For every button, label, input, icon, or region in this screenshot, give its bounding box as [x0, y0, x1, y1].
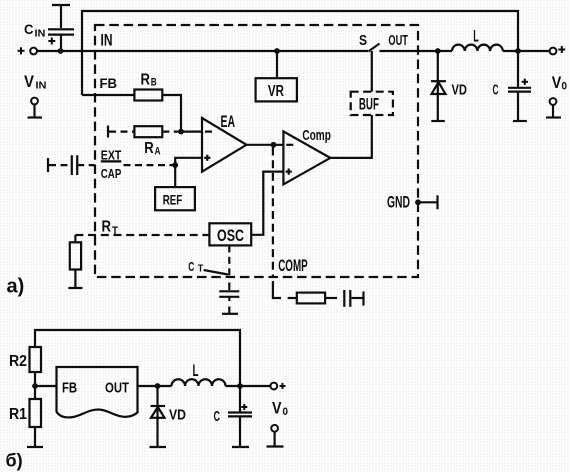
EA minus sign — [205, 131, 212, 133]
op-amp EA — [202, 118, 247, 172]
svg-text:REF: REF — [163, 192, 183, 208]
ground C b — [232, 446, 249, 448]
capacitor C output — [517, 51, 519, 87]
wire: RT resistor to ground — [74, 270, 76, 289]
svg-text:V: V — [272, 400, 282, 418]
wire: CT pin to capacitor — [228, 283, 230, 291]
svg-text:OUT: OUT — [105, 380, 129, 397]
svg-text:R1: R1 — [9, 406, 27, 423]
wire: dashed EXT/CAP line to EA plus node — [124, 164, 175, 166]
wire: OUT pin b to VD node — [138, 385, 172, 387]
svg-text:A: A — [155, 146, 161, 158]
inductor L b — [172, 379, 226, 386]
resistor RB — [134, 90, 162, 101]
node VD b junction — [155, 383, 161, 389]
tick: GND stub end — [436, 195, 438, 209]
block BUF dashed — [351, 92, 393, 115]
open terminals — [30, 48, 556, 432]
wire: VO terminal b to ground — [274, 432, 276, 447]
svg-text:GND: GND — [387, 194, 410, 212]
svg-text:EA: EA — [221, 113, 236, 131]
ground VD b — [150, 446, 167, 448]
svg-text:R: R — [144, 140, 154, 157]
terminal VIN — [31, 98, 38, 105]
wire: main IN line from input terminal to switch — [37, 50, 368, 52]
svg-text:L: L — [193, 362, 199, 380]
node EA minus junction — [178, 129, 184, 135]
plus output terminal b — [280, 385, 286, 387]
svg-text:IN: IN — [35, 28, 46, 40]
terminal output plus a — [550, 48, 557, 55]
Comp minus sign — [286, 144, 293, 146]
resistor R2 — [30, 347, 42, 372]
wire: FB pin to RB — [82, 94, 134, 96]
node VD junction — [435, 48, 441, 54]
capacitor ext plates — [71, 155, 73, 175]
wire: feedback top rail b — [35, 330, 240, 386]
wire: OSC output up to Comp plus input — [251, 172, 283, 235]
resistor RT — [70, 242, 81, 269]
EXT label underline — [101, 160, 122, 162]
inductor L — [452, 45, 503, 51]
capacitor CIN top tick — [52, 4, 70, 6]
capacitor CIN — [60, 5, 62, 28]
ground CT — [228, 307, 230, 314]
resistor RA — [134, 126, 162, 137]
svg-text:IN: IN — [36, 80, 47, 92]
svg-text:CAP: CAP — [101, 166, 122, 181]
block OSC — [209, 223, 251, 245]
wire: EXT/CAP node up to EA plus input — [175, 158, 202, 165]
svg-text:VD: VD — [169, 407, 186, 424]
wire: COMP pin stub below boundary — [273, 281, 281, 298]
comparator Comp — [283, 131, 330, 184]
svg-text:V: V — [24, 72, 35, 91]
wire: GND pin stub — [418, 201, 437, 203]
node output b junction — [237, 383, 243, 389]
ground VD — [431, 120, 445, 122]
diode VD — [437, 51, 439, 121]
wire: dashed OSC down to CT pin — [228, 245, 230, 277]
terminal input plus — [30, 48, 37, 55]
wire: BUF to switch node — [371, 51, 373, 92]
ground R1 — [27, 446, 43, 448]
plus CIN — [48, 40, 55, 42]
node VR junction — [274, 48, 280, 54]
svg-text:FB: FB — [100, 75, 118, 91]
block REF — [155, 187, 195, 210]
svg-text:T: T — [198, 263, 204, 274]
svg-text:OUT: OUT — [388, 33, 408, 49]
svg-text:a): a) — [7, 276, 25, 298]
svg-text:V: V — [552, 74, 562, 92]
wire: switch output to VD node, coil stubs, to output terminal — [380, 50, 453, 52]
wire: VO terminal to ground — [552, 105, 554, 118]
svg-text:C: C — [188, 259, 194, 274]
ground VIN — [28, 116, 43, 118]
wire: dashed to ext capacitor — [49, 164, 71, 166]
svg-text:R: R — [102, 219, 112, 236]
diode VD b — [156, 386, 158, 447]
wire: L to output terminal b — [226, 385, 271, 387]
node CIN junction — [58, 48, 64, 54]
svg-text:0: 0 — [283, 406, 289, 418]
plus signs — [18, 38, 566, 411]
EA plus sign — [204, 157, 210, 159]
capacitor compensation plates — [343, 290, 345, 307]
switch S lever — [368, 44, 379, 52]
wire: dashed RA left lead — [109, 131, 134, 133]
regulator IC box with torn bottom edge — [57, 367, 138, 417]
wire: dashed ext cap to EXT/CAP pin — [78, 164, 95, 166]
wire: FB pin b — [35, 385, 57, 387]
wire: R1 to ground — [34, 427, 36, 447]
node GND pin junction — [415, 199, 421, 205]
pointer line from CT label — [204, 270, 228, 275]
svg-text:C: C — [214, 409, 221, 425]
tick: compensation end — [362, 291, 364, 305]
wire: cap to end tick — [351, 297, 362, 299]
svg-text:IN: IN — [101, 32, 113, 50]
resistor R1 — [30, 399, 42, 427]
dashed IC boundary — [95, 25, 418, 277]
svg-text:B: B — [151, 77, 157, 89]
wire: EA output to Comp minus — [247, 144, 284, 146]
wire: VR connection to IN line — [276, 51, 278, 78]
svg-text:L: L — [473, 28, 479, 46]
svg-text:C: C — [493, 83, 499, 99]
plus output terminal a — [558, 49, 565, 51]
svg-text:VD: VD — [452, 83, 468, 99]
capacitor CT — [219, 290, 239, 292]
external capacitor on EXT/CAP: left tick — [47, 158, 49, 172]
wire: top feedback rail from FB up over to output node — [82, 11, 518, 95]
svg-text:COMP: COMP — [278, 257, 308, 275]
svg-text:VR: VR — [268, 83, 284, 100]
tick: RA left open end — [107, 126, 109, 138]
wire: Comp output up through BUF to switch — [330, 115, 372, 158]
wire: dashed RT line — [75, 234, 209, 236]
resistor compensation — [297, 293, 325, 304]
wire: RB to EA inverting node — [162, 95, 181, 132]
plus input terminal — [18, 50, 25, 52]
svg-text:T: T — [112, 225, 118, 237]
plus output cap a — [522, 81, 528, 83]
svg-text:C: C — [24, 21, 34, 37]
wire: node down to REF — [174, 165, 176, 187]
wire: node to EA minus input — [181, 131, 202, 133]
terminal output plus b — [270, 383, 277, 390]
wire: resistor to cap — [325, 297, 337, 299]
terminal VO b — [271, 425, 278, 432]
plus cap b — [241, 406, 247, 408]
ground RT — [68, 287, 82, 289]
wire: R2 to node — [34, 372, 36, 386]
node EA output junction — [271, 142, 277, 148]
wire: to compensation resistor — [288, 297, 297, 299]
terminal VO a — [550, 98, 557, 105]
svg-text:R2: R2 — [9, 353, 27, 370]
ground C — [513, 120, 527, 122]
svg-text:OSC: OSC — [217, 227, 244, 245]
svg-text:BUF: BUF — [359, 95, 379, 113]
Comp plus sign — [286, 171, 292, 173]
svg-text:0: 0 — [562, 81, 568, 93]
wire: node to R1 — [34, 386, 36, 399]
svg-text:S: S — [359, 33, 367, 49]
svg-text:FB: FB — [62, 380, 77, 397]
ground VO b — [267, 445, 284, 447]
node output junction — [515, 48, 521, 54]
node EA plus junction — [172, 162, 178, 168]
node FB b junction — [32, 383, 38, 389]
svg-text:б): б) — [6, 451, 23, 471]
block VR — [256, 78, 297, 101]
wire: dashed EA output down to COMP pin — [272, 148, 274, 278]
ground VO — [546, 116, 561, 118]
wire: RT line down to resistor — [74, 235, 76, 242]
svg-text:EXT: EXT — [101, 147, 122, 162]
capacitor C b — [239, 386, 241, 412]
svg-text:R: R — [141, 71, 151, 88]
svg-text:Comp: Comp — [302, 128, 331, 144]
wire: VIN terminal to ground — [33, 105, 35, 118]
wire: dashed RA right lead — [162, 131, 180, 133]
